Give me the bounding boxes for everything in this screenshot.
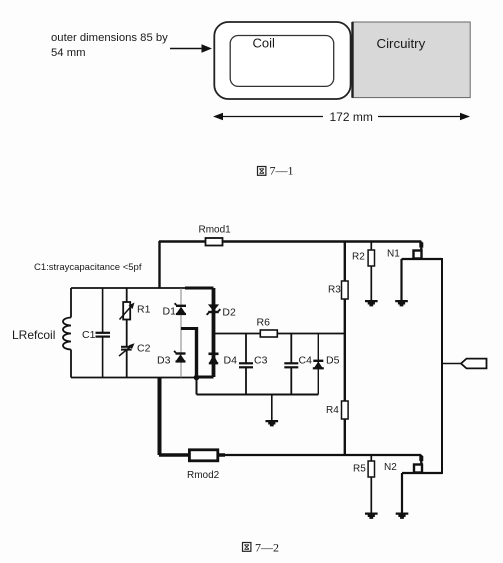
svg-text:C1: C1 (82, 329, 96, 341)
svg-text:C3: C3 (254, 355, 268, 367)
svg-text:D4: D4 (224, 355, 238, 367)
svg-text:C2: C2 (137, 343, 151, 355)
svg-text:Circuitry: Circuitry (377, 36, 426, 51)
svg-text:R2: R2 (352, 252, 365, 263)
svg-text:R1: R1 (137, 304, 151, 316)
svg-text:R5: R5 (353, 464, 366, 475)
svg-text:172 mm: 172 mm (330, 110, 373, 124)
svg-text:D2: D2 (222, 307, 236, 319)
svg-text:7—2: 7—2 (255, 541, 279, 555)
svg-text:N1: N1 (387, 249, 400, 260)
svg-text:Coil: Coil (253, 36, 276, 51)
svg-text:D3: D3 (157, 355, 171, 367)
svg-text:D5: D5 (326, 355, 340, 367)
svg-text:outer dimensions 85 by: outer dimensions 85 by (51, 32, 168, 44)
svg-text:D1: D1 (163, 306, 177, 318)
svg-text:54 mm: 54 mm (51, 47, 86, 59)
svg-text:R4: R4 (326, 405, 339, 416)
svg-text:Rmod2: Rmod2 (187, 470, 220, 481)
svg-text:Rmod1: Rmod1 (199, 225, 232, 236)
svg-text:N2: N2 (384, 462, 397, 473)
svg-text:R6: R6 (257, 317, 271, 329)
svg-text:R3: R3 (328, 285, 341, 296)
svg-text:C1:straycapacitance <5pf: C1:straycapacitance <5pf (34, 262, 142, 273)
svg-text:C4: C4 (299, 355, 313, 367)
svg-text:7—1: 7—1 (270, 164, 294, 178)
svg-text:LRefcoil: LRefcoil (12, 328, 55, 342)
